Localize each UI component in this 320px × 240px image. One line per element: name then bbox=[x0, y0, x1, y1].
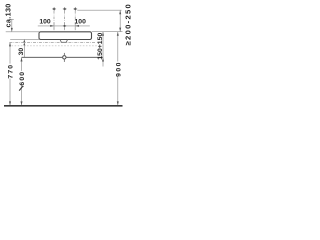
drain trap symbol bbox=[63, 53, 65, 62]
washbasin body bbox=[39, 32, 92, 40]
supply diamond 1 bbox=[52, 7, 57, 11]
supply centerline 1 bbox=[53, 11, 55, 31]
dim 30 bbox=[23, 39, 25, 57]
supply diamond 3 bbox=[73, 7, 78, 11]
break squiggle on 600 line bbox=[19, 86, 23, 90]
dim 600 bbox=[21, 58, 23, 71]
svg-text:900: 900 bbox=[116, 61, 123, 77]
svg-text:30: 30 bbox=[18, 48, 25, 56]
extension ticks at supply lines bbox=[54, 23, 75, 28]
dim ca.130 bbox=[11, 19, 13, 31]
supply level line to right dim bbox=[77, 9, 121, 11]
basin bottom extension line left bbox=[10, 38, 39, 40]
waste pipe line bbox=[22, 56, 104, 58]
svg-text:770: 770 bbox=[8, 64, 15, 79]
svg-text:100: 100 bbox=[75, 19, 87, 26]
svg-text:150+150: 150+150 bbox=[97, 33, 104, 60]
dim 900 bbox=[117, 32, 119, 62]
svg-text:≥200-250: ≥200-250 bbox=[123, 3, 132, 45]
drain bump under basin bbox=[60, 40, 68, 43]
arrowheads 100 dims bbox=[50, 25, 54, 27]
supply centerline 2 bbox=[64, 11, 66, 31]
main dash-dot centre line bbox=[9, 41, 95, 43]
svg-text:600: 600 bbox=[19, 71, 26, 86]
floor line bbox=[4, 105, 123, 107]
supply centerline 3 bbox=[74, 11, 76, 31]
dim >=200-250 vertical line bbox=[119, 10, 121, 31]
dim 770 bbox=[9, 43, 11, 64]
svg-text:100: 100 bbox=[39, 19, 51, 26]
basin top extension line right bbox=[92, 31, 123, 33]
dim 150+150 bbox=[102, 32, 104, 67]
svg-text:ca.130: ca.130 bbox=[3, 3, 12, 27]
supply diamond 2 bbox=[62, 7, 66, 11]
dim line for 100/100 bbox=[38, 25, 90, 27]
basin top extension line left bbox=[6, 31, 39, 33]
hidden bowl bottom dashed line bbox=[12, 45, 98, 47]
